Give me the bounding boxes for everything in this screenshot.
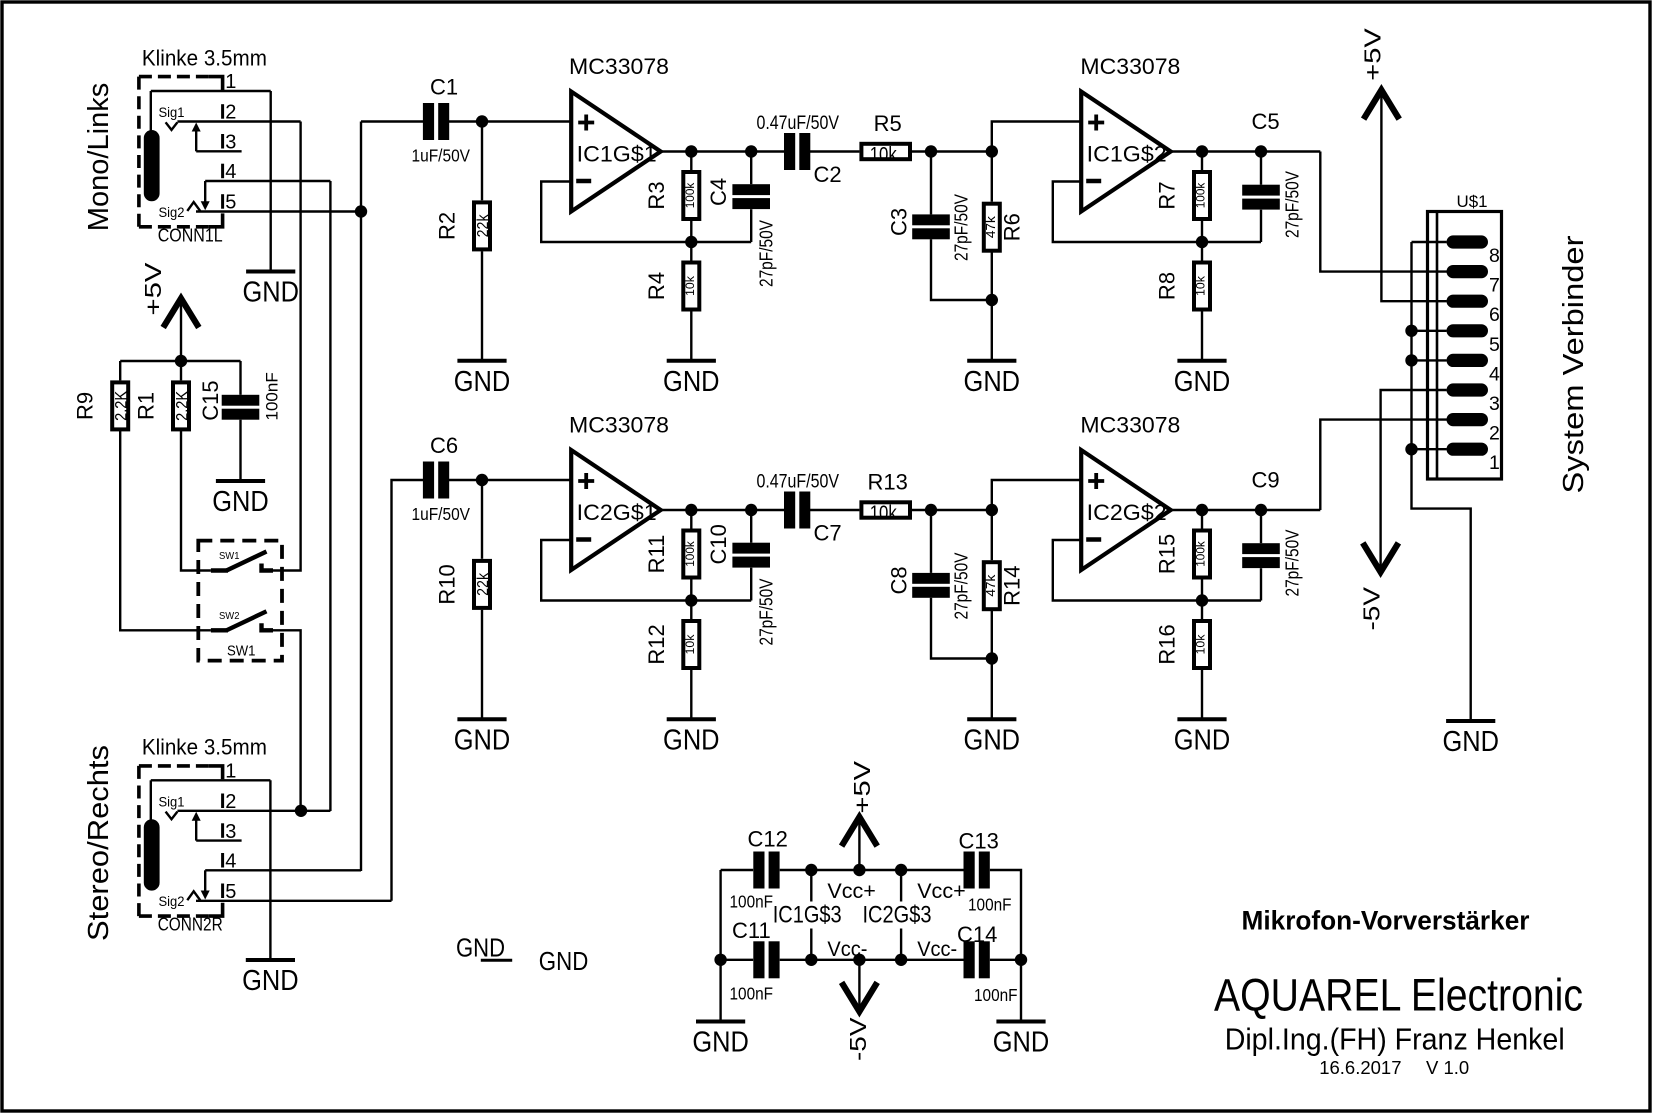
wire -5V stem power	[858, 960, 860, 1009]
svg-text:27pF/50V: 27pF/50V	[1282, 529, 1303, 597]
svg-text:MC33078: MC33078	[569, 54, 669, 79]
svg-text:R8: R8	[1155, 272, 1180, 300]
svg-text:R7: R7	[1155, 181, 1180, 209]
junction output/C4	[745, 145, 757, 157]
capacitor C11	[753, 941, 779, 978]
junction C6/R10	[476, 474, 488, 486]
svg-text:C5: C5	[1252, 109, 1280, 134]
wire R1 top	[180, 361, 182, 380]
capacitor C2	[784, 133, 810, 170]
wire R10 to ground	[481, 610, 483, 718]
svg-text:IC1G$3: IC1G$3	[773, 902, 842, 929]
U$1 pin 6 pad	[1447, 295, 1489, 308]
svg-text:IC2G$2: IC2G$2	[1087, 500, 1167, 525]
svg-text:R4: R4	[644, 272, 669, 300]
svg-text:100nF: 100nF	[968, 894, 1012, 914]
wire R8 top	[1201, 242, 1203, 263]
CONN2R pin4 arrow	[201, 891, 210, 900]
svg-text:GND: GND	[692, 1027, 749, 1059]
junction output/C10	[745, 504, 757, 516]
wire CONN2R pin5 Sig2	[196, 900, 392, 902]
wire IC1G$2 output	[1171, 150, 1321, 152]
svg-text:R9: R9	[73, 392, 98, 420]
capacitor C7	[784, 492, 810, 529]
svg-text:GND: GND	[1442, 726, 1499, 758]
capacitor C12	[753, 852, 779, 889]
svg-text:27pF/50V: 27pF/50V	[1282, 170, 1303, 238]
resistor R3	[681, 170, 701, 221]
svg-text:GND: GND	[993, 1027, 1050, 1059]
svg-text:+5V: +5V	[849, 761, 875, 814]
junction output/R7	[1196, 145, 1208, 157]
wire R13 out	[910, 509, 992, 511]
svg-text:3: 3	[1489, 393, 1500, 415]
wire +5V rail	[120, 360, 240, 362]
svg-text:27pF/50V: 27pF/50V	[951, 552, 972, 620]
wire SW2 to CONN2R Sig1	[273, 630, 301, 811]
svg-text:GND: GND	[964, 724, 1021, 756]
wire +5V stem	[180, 300, 182, 362]
svg-text:V 1.0: V 1.0	[1426, 1057, 1469, 1078]
wire C7 to R13	[810, 509, 861, 511]
U$1 pin 2 pad	[1447, 413, 1489, 426]
resistor R6	[982, 202, 1002, 253]
wire C5 bot	[1260, 210, 1262, 242]
capacitor C4	[732, 184, 770, 209]
wire Vcc- rail	[721, 959, 754, 961]
junction IC1G$3 Vcc-	[805, 954, 817, 966]
resistor R4	[681, 261, 701, 312]
junction pin 5	[1405, 325, 1417, 337]
svg-text:C2: C2	[814, 162, 842, 187]
wire CONN1L pin2 Sig1	[177, 120, 300, 122]
svg-text:Vcc+: Vcc+	[917, 879, 966, 903]
U$1 pin 8 pad	[1447, 235, 1489, 248]
wire Vcc- rail b	[780, 959, 964, 961]
wire C8 bot	[931, 598, 992, 659]
junction output/C9	[1255, 504, 1267, 516]
svg-text:Vcc-: Vcc-	[827, 937, 867, 961]
ground R6	[964, 361, 1021, 398]
wire R10 top	[481, 480, 483, 559]
svg-text:R10: R10	[435, 564, 460, 604]
wire R12 top	[690, 601, 692, 622]
wire C9 output to pin 2	[1320, 420, 1447, 510]
junction feedback R15/R16	[1196, 594, 1208, 606]
power +5V symbol	[165, 298, 197, 325]
wire R1 bottom to SW1	[181, 431, 211, 571]
wire C14 to ground	[990, 959, 1021, 961]
capacitor C8	[912, 573, 950, 598]
junction -5V	[853, 954, 865, 966]
wire R7 bot	[1201, 221, 1203, 242]
wire C15 top	[239, 361, 241, 395]
wire C5 top	[1260, 152, 1262, 185]
wire left ground drop	[719, 960, 721, 1020]
junction output/C5	[1255, 145, 1267, 157]
svg-text:GND: GND	[242, 277, 299, 309]
wire Sig1 to SW1	[273, 122, 301, 571]
wire R9 bottom to SW2	[120, 431, 211, 631]
wire R5 out	[910, 150, 992, 152]
svg-text:Sig2: Sig2	[159, 205, 185, 220]
connector U$1 inner line	[1436, 212, 1439, 480]
junction IC2G$3 Vcc-	[895, 954, 907, 966]
svg-text:R1: R1	[134, 392, 159, 420]
junction feedback R3/R4	[685, 236, 697, 248]
ground R14	[964, 719, 1021, 756]
ground U$1	[1442, 721, 1499, 758]
junction R6 bottom	[986, 294, 998, 306]
resistor R14	[982, 560, 1002, 611]
U$1 pin 5 pad	[1447, 324, 1489, 337]
svg-text:+5V: +5V	[140, 262, 166, 315]
wire R12 to ground	[690, 668, 692, 718]
switch box SW1 dashed outline	[198, 541, 282, 661]
CONN2R pin3 arrow	[192, 812, 201, 821]
wire right ground drop	[1020, 960, 1022, 1020]
U$1 pin 4 pad	[1447, 354, 1489, 367]
wire R3 top	[690, 152, 692, 173]
svg-text:IC1G$1: IC1G$1	[577, 142, 657, 167]
resistor R12	[681, 619, 701, 670]
svg-text:Sig1: Sig1	[159, 794, 185, 809]
op-amp IC2G$2	[1081, 450, 1171, 570]
wire R11 top	[690, 510, 692, 531]
wire CONN1L pin5 Sig2	[196, 210, 361, 212]
junction R14 tap	[986, 504, 998, 516]
wire R11 bot	[690, 580, 692, 601]
CONN1L Sig1 contact	[166, 122, 178, 130]
svg-text:10k: 10k	[870, 144, 898, 166]
svg-text:MC33078: MC33078	[569, 413, 669, 438]
svg-text:5: 5	[1489, 334, 1500, 356]
junction C14/C13 ground	[1015, 954, 1027, 966]
junction pin 1	[1405, 443, 1417, 455]
svg-text:GND: GND	[454, 724, 511, 756]
wire CONN1L pin1	[151, 90, 271, 92]
svg-text:2: 2	[1489, 423, 1500, 445]
wire CONN2R pin3 riser	[195, 819, 197, 841]
svg-text:1uF/50V: 1uF/50V	[412, 504, 471, 524]
junction R14 bottom	[986, 652, 998, 664]
wire CONN1L pin4 drop	[204, 181, 206, 204]
svg-text:0.47uF/50V: 0.47uF/50V	[757, 471, 840, 493]
svg-text:GND: GND	[663, 366, 720, 398]
svg-text:Stereo/Rechts: Stereo/Rechts	[83, 745, 115, 941]
svg-text:16.6.2017: 16.6.2017	[1319, 1057, 1401, 1078]
wire R2 top	[481, 122, 483, 201]
ground power left	[692, 1022, 749, 1059]
wire to C7	[783, 509, 785, 511]
svg-text:-5V: -5V	[1359, 587, 1385, 631]
U$1 pin 3 pad	[1447, 383, 1489, 396]
svg-text:GND: GND	[242, 965, 299, 997]
capacitor C14	[964, 941, 990, 978]
connector U$1 body	[1428, 212, 1502, 480]
resistor R9	[110, 380, 131, 431]
connector CONN1L dashed outline	[139, 77, 223, 227]
wire IC2G$1 output	[661, 509, 785, 511]
power -5V symbol supply	[843, 985, 875, 1012]
CONN1L pin3 arrow	[192, 123, 201, 132]
svg-text:Dipl.Ing.(FH) Franz Henkel: Dipl.Ing.(FH) Franz Henkel	[1225, 1023, 1565, 1057]
svg-text:C6: C6	[430, 433, 458, 458]
svg-text:U$1: U$1	[1457, 192, 1488, 211]
wire IC2G$1 feedback	[541, 540, 751, 601]
svg-text:100nF: 100nF	[730, 892, 774, 912]
wire CONN2R pin4	[205, 869, 361, 871]
svg-text:6: 6	[1489, 304, 1500, 326]
CONN2R pin ticks	[221, 794, 224, 899]
wire CONN1L pin3 riser	[195, 130, 197, 152]
svg-text:SW2: SW2	[219, 610, 240, 622]
svg-text:AQUAREL Electronic: AQUAREL Electronic	[1214, 970, 1583, 1021]
switch SW1 contact B	[211, 611, 273, 630]
svg-text:C11: C11	[732, 918, 771, 943]
resistor R11	[681, 529, 701, 580]
svg-text:Mono/Links: Mono/Links	[83, 83, 115, 232]
svg-text:R3: R3	[644, 181, 669, 209]
wire C2 to R5	[810, 150, 861, 152]
wire C9 bot	[1260, 568, 1262, 600]
wire Sig2 to C6	[392, 480, 424, 901]
op-amp IC1G$2	[1081, 92, 1171, 212]
power -5V symbol right	[1364, 546, 1396, 573]
svg-text:IC1G$2: IC1G$2	[1087, 142, 1167, 167]
CONN2R Sig1 contact	[166, 812, 178, 820]
svg-text:8: 8	[1489, 245, 1500, 267]
CONN2R Sig2 contact	[187, 891, 200, 900]
junction +5V rail	[175, 355, 187, 367]
wire IC1G$3 Vcc+ stub	[810, 870, 812, 902]
svg-text:R12: R12	[644, 624, 669, 664]
svg-text:Mikrofon-Vorverstärker: Mikrofon-Vorverstärker	[1242, 905, 1530, 935]
wire R6 to ground	[991, 251, 993, 359]
junction C3 tap	[925, 145, 937, 157]
wire IC2G$2 feedback	[1053, 540, 1261, 601]
svg-text:Vcc-: Vcc-	[917, 937, 957, 961]
svg-text:MC33078: MC33078	[1080, 54, 1180, 79]
CONN1L pin4 arrow	[201, 201, 210, 210]
svg-text:27pF/50V: 27pF/50V	[756, 578, 777, 646]
wire pin 3 to -5V	[1381, 390, 1447, 570]
svg-text:-5V: -5V	[845, 1017, 871, 1061]
junction +5V	[853, 864, 865, 876]
junction CONN2R Sig1	[295, 805, 307, 817]
svg-text:4: 4	[1489, 363, 1500, 385]
junction feedback R7/R8	[1196, 236, 1208, 248]
power +5V symbol top right	[1365, 90, 1397, 117]
svg-text:R5: R5	[874, 111, 902, 136]
wire IC2G$2 output	[1171, 509, 1321, 511]
capacitor C9	[1242, 543, 1280, 568]
wire R7 top	[1201, 152, 1203, 173]
wire CONN2R pin4 drop	[204, 870, 206, 893]
svg-text:1: 1	[1489, 452, 1500, 474]
wire C3 bot	[931, 239, 992, 300]
CONN2R pin numbers 1-5	[225, 761, 236, 904]
svg-text:1uF/50V: 1uF/50V	[412, 146, 471, 166]
svg-text:R13: R13	[868, 470, 908, 495]
ground R16	[1174, 719, 1231, 756]
svg-text:GND: GND	[663, 724, 720, 756]
svg-text:Klinke 3.5mm: Klinke 3.5mm	[142, 735, 267, 760]
wire IC1G$3 Vcc- stub	[810, 929, 812, 960]
wire C3 top	[930, 152, 932, 215]
junction C8 tap	[925, 504, 937, 516]
wire CONN2R pin2 Sig1	[177, 810, 330, 812]
svg-text:C1: C1	[430, 75, 458, 100]
resistor R10	[472, 559, 492, 610]
wire IC1G$1 feedback	[541, 182, 751, 243]
capacitor C15	[222, 395, 260, 420]
wire C9 top	[1260, 510, 1262, 543]
CONN1L pin numbers 1-5	[225, 71, 236, 214]
svg-text:Vcc+: Vcc+	[827, 879, 876, 903]
wire R13 to IC2G$2 input	[992, 480, 1081, 562]
svg-text:R11: R11	[644, 535, 669, 574]
svg-text:C9: C9	[1252, 468, 1280, 493]
wire C6 out	[449, 479, 571, 481]
junction output/R3	[685, 145, 697, 157]
ground C15	[212, 481, 269, 518]
wire CONN2R pin1 to ground	[269, 780, 271, 958]
wire R3 bot	[690, 221, 692, 242]
capacitor C6	[423, 462, 449, 499]
wire C10 bot	[750, 568, 752, 601]
svg-text:C13: C13	[959, 829, 999, 854]
resistor R16	[1192, 619, 1212, 670]
junction IC1G$3 Vcc+	[805, 864, 817, 876]
svg-text:MC33078: MC33078	[1080, 413, 1180, 438]
wire CONN1L pin1 to ground	[270, 91, 272, 270]
wire CONN1L plug stub	[150, 91, 152, 131]
wire R8 to ground	[1201, 309, 1203, 359]
ground R8	[1174, 361, 1231, 398]
junction Vcc- left	[714, 954, 726, 966]
resistor R8	[1192, 261, 1212, 312]
wire R15 bot	[1201, 580, 1203, 601]
wire R9 top	[119, 361, 121, 380]
svg-text:GND: GND	[212, 486, 269, 518]
wire +5V to pin 6	[1381, 90, 1446, 301]
op-amp IC1G$1	[571, 92, 661, 212]
switch SW1 contact A	[211, 552, 273, 571]
svg-text:C8: C8	[887, 566, 912, 594]
wire U$1 pin 5 stub	[1412, 330, 1447, 332]
resistor R2	[472, 200, 492, 251]
svg-text:CONN2R: CONN2R	[158, 914, 223, 935]
svg-text:C15: C15	[198, 380, 223, 420]
op-amp IC2G$1	[571, 450, 661, 570]
junction output/R15	[1196, 504, 1208, 516]
svg-text:IC2G$1: IC2G$1	[577, 500, 657, 525]
resistor R7	[1192, 170, 1212, 221]
svg-text:GND: GND	[454, 366, 511, 398]
svg-text:R2: R2	[435, 212, 460, 240]
U$1 pin 1 pad	[1447, 443, 1489, 456]
ground R4	[663, 361, 720, 398]
svg-text:SW1: SW1	[219, 550, 240, 562]
CONN1L Sig2 contact	[187, 202, 200, 211]
svg-text:100nF: 100nF	[263, 372, 282, 420]
wire IC2G$3 Vcc- stub	[900, 929, 902, 960]
junction feedback R11/R12	[685, 594, 697, 606]
svg-text:27pF/50V: 27pF/50V	[756, 219, 777, 287]
wire U$1 pin 1 stub	[1412, 448, 1447, 450]
svg-text:System Verbinder: System Verbinder	[1558, 235, 1590, 493]
capacitor C10	[732, 543, 770, 568]
svg-text:C14: C14	[957, 922, 997, 947]
svg-text:SW1: SW1	[227, 644, 256, 660]
resistor R1	[171, 380, 192, 431]
svg-text:C10: C10	[706, 524, 731, 564]
resistor R13	[859, 500, 912, 524]
wire left rail down	[719, 870, 721, 960]
wire +5V stem power	[858, 818, 860, 870]
svg-text:10k: 10k	[870, 503, 898, 525]
svg-text:C7: C7	[814, 521, 842, 546]
capacitor C13	[964, 852, 990, 889]
resistor R5	[859, 142, 912, 166]
wire U$1 pin 4 stub	[1412, 359, 1447, 361]
wire IC1G$1 output	[661, 150, 785, 152]
svg-text:C4: C4	[706, 178, 731, 206]
svg-text:R6: R6	[999, 213, 1024, 241]
wire pin4 to CONN2R Sig1	[329, 181, 331, 811]
wire CONN2R pin3	[196, 839, 241, 841]
wire R16 top	[1201, 601, 1203, 622]
wire C4 bot	[750, 209, 752, 242]
svg-text:7: 7	[1489, 275, 1500, 297]
svg-text:Sig1: Sig1	[159, 105, 185, 120]
connector CONN2R dashed outline	[139, 766, 223, 916]
ground CONN2R	[242, 960, 299, 997]
svg-text:C3: C3	[887, 208, 912, 236]
wire to C2	[783, 150, 785, 152]
wire C5 output to pin 7	[1320, 152, 1447, 272]
wire C10 top	[750, 510, 752, 543]
svg-text:100nF: 100nF	[974, 985, 1018, 1005]
svg-text:Sig2: Sig2	[159, 894, 185, 909]
svg-text:GND: GND	[1174, 366, 1231, 398]
junction output/R11	[685, 504, 697, 516]
wire IC2G$3 Vcc+ stub	[900, 870, 902, 902]
CONN1L plug symbol	[144, 130, 160, 201]
junction IC2G$3 Vcc+	[895, 864, 907, 876]
wire CONN2R plug stub	[150, 780, 152, 820]
wire to C1	[361, 120, 423, 122]
wire C13 to ground corner	[990, 870, 1021, 958]
svg-text:GND: GND	[964, 366, 1021, 398]
svg-text:R14: R14	[999, 566, 1024, 606]
junction C1/R2	[476, 115, 488, 127]
wire CONN2R pin1	[151, 779, 271, 781]
wire IC1G$2 feedback	[1053, 182, 1261, 243]
wire C4 top	[750, 152, 752, 185]
ground R12	[663, 719, 720, 756]
wire R14 to ground	[991, 610, 993, 718]
ground power right	[993, 1022, 1050, 1059]
wire C1 out	[449, 120, 571, 122]
wire U$1 pin 8 stub	[1412, 241, 1447, 243]
svg-text:27pF/50V: 27pF/50V	[951, 193, 972, 261]
svg-text:GND: GND	[456, 933, 505, 963]
svg-text:GND: GND	[539, 946, 589, 976]
wire R15 top	[1201, 510, 1203, 531]
svg-text:100nF: 100nF	[730, 983, 774, 1003]
